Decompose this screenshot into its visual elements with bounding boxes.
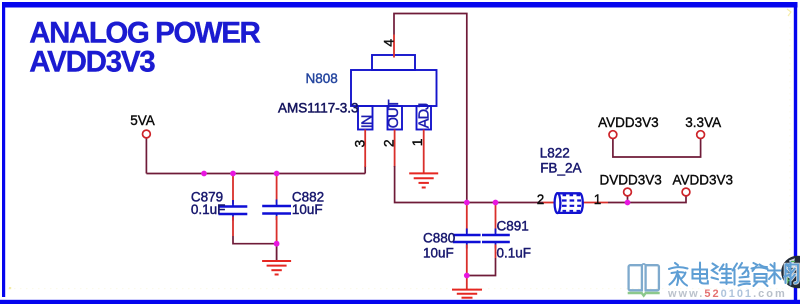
power port AVDD3V3 right (673, 172, 734, 196)
svg-text:5VA: 5VA (130, 113, 155, 128)
wire DVDD3V3 stub (627, 196, 629, 203)
label C879 0.1uF (191, 189, 226, 217)
wire ground stub below C882 (276, 244, 278, 260)
wire C891 bottom L to ground node (467, 258, 496, 276)
label C882 10uF (292, 189, 324, 217)
wire output node to bead (467, 202, 543, 204)
svg-text:IN: IN (359, 115, 375, 128)
svg-text:3.3VA: 3.3VA (685, 115, 721, 130)
watermark book icon (629, 264, 659, 290)
svg-text:FB_2A: FB_2A (540, 161, 581, 176)
ground GND1 at ADJ (409, 173, 438, 187)
wire riser to pin 3 (364, 166, 366, 174)
char 资 (752, 263, 768, 286)
title ANALOG POWER AVDD3V3 (29, 17, 260, 79)
svg-text:C891: C891 (497, 218, 529, 233)
svg-text:OUT: OUT (386, 99, 402, 128)
char 维 (712, 264, 733, 285)
svg-text:3: 3 (351, 139, 367, 147)
inductor L822 ferrite bead FB_2A (543, 193, 608, 213)
power port 3.3VA (685, 115, 721, 139)
svg-text:C880: C880 (423, 230, 455, 245)
char 家 (669, 263, 688, 286)
power port DVDD3V3 (600, 172, 662, 196)
svg-text:AVDD3V3: AVDD3V3 (673, 172, 734, 187)
pin 1 stub (423, 130, 425, 173)
wire OUT pin2 down and right to node (395, 166, 467, 203)
watermark chinese text 家电维修资料网 (786, 265, 799, 284)
capacitor C879 (219, 174, 248, 237)
wire AVDD3V3 to 3.3VA tie (613, 139, 701, 157)
yellow dotted sheet border bottom (8, 287, 789, 289)
svg-text:1: 1 (594, 192, 602, 207)
svg-text:2: 2 (537, 192, 545, 207)
char 修 (733, 263, 751, 286)
label C891 0.1uF (497, 218, 532, 260)
capacitor C880 (453, 203, 481, 276)
char 料 (768, 263, 791, 285)
capacitor C882 (262, 174, 291, 244)
svg-text:www.520101.com: www.520101.com (667, 288, 787, 300)
wire ground stub below C880 (466, 276, 468, 290)
svg-text:ADJ: ADJ (416, 103, 432, 128)
watermark floating widget dark circle (781, 256, 800, 289)
wire input net horizontal 5VA to IN (146, 173, 365, 175)
svg-text:AMS1117-3.3: AMS1117-3.3 (278, 100, 359, 115)
node J5 output node (464, 200, 470, 206)
capacitor C891 (482, 203, 510, 259)
pin 2 stub (394, 130, 396, 168)
wire bead to AVDD3V3 (608, 196, 686, 203)
svg-text:4: 4 (380, 39, 396, 47)
svg-text:10uF: 10uF (423, 245, 454, 260)
node J2 C879 tap (230, 171, 236, 177)
label L822 FB_2A (540, 146, 582, 176)
svg-text:0.1uF: 0.1uF (191, 202, 226, 217)
node J6 C891 tap (493, 200, 499, 206)
ground GND2 below C879 C882 (262, 261, 291, 275)
node J7 bottom ground node (464, 273, 470, 279)
watermark book base (628, 293, 660, 296)
char 网 (786, 265, 799, 284)
wire C879 bottom to C882 bottom (233, 236, 277, 244)
svg-text:AVDD3V3: AVDD3V3 (29, 46, 155, 79)
svg-text:N808: N808 (306, 71, 338, 86)
power port 5VA (130, 113, 155, 138)
power port AVDD3V3 top (598, 115, 659, 139)
svg-text:1: 1 (409, 138, 425, 146)
svg-text:L822: L822 (540, 146, 570, 161)
yellow dotted sheet border right (787, 9, 791, 290)
node J4 ground junction (274, 241, 280, 247)
svg-text:10uF: 10uF (292, 202, 323, 217)
frame left border (2, 2, 5, 297)
node J3 C882 tap (274, 171, 280, 177)
frame right border (794, 2, 797, 300)
node J8 DVDD3V3 tap (625, 200, 631, 206)
wire pin4 top net over to node column (394, 14, 467, 203)
char 电 (693, 263, 708, 284)
svg-text:AVDD3V3: AVDD3V3 (598, 115, 659, 130)
node J1 input (201, 171, 207, 177)
regulator N808 AMS1117-3.3 SOT-223 body (351, 55, 437, 130)
svg-text:2: 2 (381, 139, 397, 147)
wire net 5VA vertical stub (145, 138, 147, 174)
ground GND3 bottom (452, 290, 482, 298)
frame top border (2, 2, 798, 8)
svg-text:0.1uF: 0.1uF (497, 246, 532, 261)
pin 4 stub (393, 35, 395, 58)
frame bottom border (0, 300, 800, 304)
pin 3 stub (364, 130, 366, 168)
svg-text:DVDD3V3: DVDD3V3 (600, 172, 662, 187)
label C880 10uF (423, 230, 455, 260)
